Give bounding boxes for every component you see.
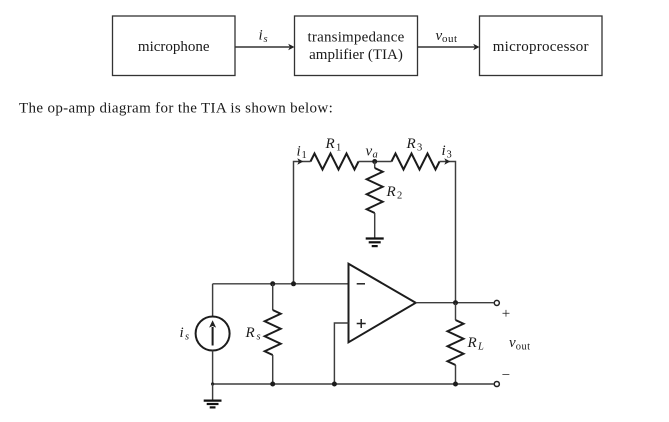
svg-text:a: a (373, 149, 378, 160)
wire: output node to R_L (455, 303, 457, 320)
wire: op-amp output (416, 302, 494, 304)
svg-text:s: s (185, 332, 189, 343)
wire: R3 to right corner, down to output node (440, 162, 456, 303)
wire: current source branch bottom (212, 351, 214, 385)
svg-text:s: s (257, 331, 261, 342)
svg-text:1: 1 (302, 150, 307, 161)
wire: top-left feedback corner and segment to R1 (294, 162, 311, 284)
svg-text:out: out (442, 33, 458, 45)
svg-text:L: L (477, 342, 484, 353)
wire: current source branch top (212, 284, 214, 317)
svg-text:+: + (502, 306, 510, 322)
junction dot R_L bottom (453, 382, 458, 387)
svg-text:3: 3 (417, 143, 422, 154)
block: TIA box (295, 16, 418, 76)
svg-text:The op-amp diagram for the TIA: The op-amp diagram for the TIA is shown … (19, 100, 333, 116)
wire: R2 to ground (374, 213, 376, 239)
svg-text:1: 1 (336, 143, 341, 154)
block: microphone box (113, 16, 236, 76)
junction dot R_s bottom (270, 382, 275, 387)
svg-text:i: i (442, 143, 446, 159)
resistor R_L (448, 320, 464, 365)
arrow i3 (444, 158, 450, 165)
junction dot at R_s top (270, 281, 275, 286)
wire: bottom rail (213, 383, 494, 385)
svg-text:v: v (366, 144, 373, 160)
op-amp U1 (349, 264, 416, 343)
junction dot ground corner (211, 382, 214, 385)
output terminal - (open circle) (494, 381, 499, 386)
junction dot at output node (453, 300, 458, 305)
wire: R_L to bottom rail (455, 365, 457, 384)
resistor R1 (311, 154, 359, 170)
wire: inverting input rail (213, 283, 349, 285)
junction dot non-inverting bottom (332, 382, 337, 387)
output terminal + (open circle) (494, 300, 499, 305)
resistor R3 (392, 154, 440, 170)
svg-text:s: s (264, 34, 268, 45)
ground (bottom-left) (204, 401, 222, 408)
wire: arrow microphone to TIA (235, 46, 290, 48)
svg-text:i: i (180, 325, 184, 341)
wire: R1 to node v_a (359, 161, 392, 163)
svg-text:out: out (516, 341, 531, 352)
svg-text:microphone: microphone (138, 39, 210, 55)
svg-text:amplifier (TIA): amplifier (TIA) (309, 47, 403, 63)
arrow i1 (297, 158, 303, 165)
op-amp minus sign (357, 283, 365, 285)
svg-text:microprocessor: microprocessor (493, 39, 589, 55)
current source i_s (196, 317, 230, 351)
wire: arrow TIA to microprocessor (418, 46, 475, 48)
wire: bottom-left ground stem (212, 384, 214, 401)
op-amp plus sign (357, 319, 366, 328)
wire: non-inverting input (334, 323, 348, 384)
node v_a dot (372, 159, 377, 164)
wire: R_s branch top (272, 284, 274, 310)
svg-text:−: − (502, 368, 510, 384)
svg-text:R: R (406, 136, 416, 152)
svg-text:2: 2 (397, 191, 402, 202)
junction dot at feedback tap (291, 281, 296, 286)
ground (below R2) (366, 239, 384, 247)
wire: node v_a down to R2 (374, 162, 376, 169)
svg-text:transimpedance: transimpedance (308, 30, 405, 46)
resistor R2 (367, 168, 383, 213)
svg-text:R: R (325, 136, 335, 152)
svg-text:R: R (467, 335, 477, 351)
wire: R_s branch bottom (272, 355, 274, 384)
svg-text:R: R (386, 184, 396, 200)
svg-text:i: i (259, 28, 263, 44)
svg-text:i: i (297, 144, 301, 160)
block: microprocessor box (480, 16, 603, 76)
svg-text:3: 3 (447, 150, 452, 161)
resistor R_s (265, 310, 281, 355)
svg-text:R: R (245, 325, 255, 341)
